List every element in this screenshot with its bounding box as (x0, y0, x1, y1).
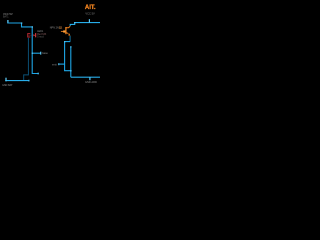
LED D1 circle (28, 34, 31, 37)
LED D1 cathode bar (35, 33, 36, 37)
terminal pin base stub (40, 52, 42, 55)
svg-text:GND BAT: GND BAT (2, 84, 13, 87)
wire emitter stub (59, 63, 64, 65)
wire net GND-left bottom rail (5, 80, 29, 82)
terminal pin emitter stub (58, 63, 60, 65)
wire branch to base stub (32, 52, 40, 54)
wire net VCC: top-left rail to LED anode, down to stub (7, 23, 38, 74)
svg-text:AIT.: AIT. (85, 5, 96, 11)
wire net GND rail right (71, 76, 100, 78)
transistor Q1 bar (65, 27, 66, 34)
LED D1 lead (28, 34, 32, 36)
corner node dots (5, 22, 75, 81)
terminal pin GND-left (5, 78, 7, 81)
svg-text:base: base (42, 51, 48, 55)
wire net collector to VCC-right rail (70, 23, 100, 26)
terminal pin V1 (7, 20, 9, 23)
transistor Q1 emitter arrow (68, 33, 70, 35)
wire net emitter: left, down, right to junction (65, 42, 71, 71)
node V1 label (top-left) (3, 12, 13, 19)
wire net K: LED cathode column (dim) with jog to bottom-left (24, 38, 29, 81)
terminal pin VCC-right (88, 19, 90, 22)
junction (70, 70, 72, 72)
canvas background (0, 0, 100, 100)
transistor Q1 base lead (61, 30, 66, 32)
svg-text:emit: emit (52, 63, 57, 66)
transistor Q1 emitter lead (67, 32, 69, 35)
LED D1 triangle (33, 34, 35, 36)
svg-text:VCC 5V: VCC 5V (85, 11, 95, 15)
wire stub tip (70, 46, 71, 47)
svg-text:BAT1: BAT1 (3, 16, 9, 19)
transistor Q1 collector lead (67, 26, 71, 28)
wire net emitter: down from emitter (69, 36, 71, 42)
wire net emitter-right column (70, 47, 72, 78)
terminal pin GND-right (89, 77, 91, 80)
svg-text:GND ARD: GND ARD (85, 80, 97, 84)
transistor Q1 base pin blob (63, 30, 65, 32)
wire end tip (38, 73, 39, 75)
svg-text:VCC 5V: VCC 5V (3, 12, 13, 16)
svg-text:5 mcd: 5 mcd (37, 36, 44, 39)
wire end tip (28, 80, 29, 82)
